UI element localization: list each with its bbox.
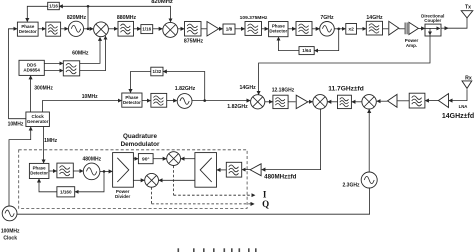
wire PD3 to loop filter F3 xyxy=(142,100,150,102)
svg-text:Coupler: Coupler xyxy=(424,18,441,23)
amplifier A2 xyxy=(389,21,399,35)
wire 880MHz filter to divider 1/16 B xyxy=(134,28,141,30)
svg-text:60MHz: 60MHz xyxy=(72,51,89,57)
wire F3 to VCO 1.82GHz xyxy=(167,100,177,102)
wire 60MHz Q to mixer M1 bottom xyxy=(80,36,106,70)
svg-text:820MHz: 820MHz xyxy=(151,0,173,5)
wire F1 to VCO 820MHz xyxy=(61,28,68,30)
wire LNA to Rx filter xyxy=(425,100,438,102)
svg-text:1.82GHz: 1.82GHz xyxy=(227,104,248,110)
filter 60MHz xyxy=(63,51,89,76)
svg-text:Detector: Detector xyxy=(123,100,141,105)
phase detector PD2 xyxy=(269,22,288,37)
amplifier A1 xyxy=(207,22,219,37)
mixer M5 xyxy=(362,95,376,109)
node 480MHz junction xyxy=(103,170,106,173)
quadrature demodulator dashed box xyxy=(19,150,247,209)
wire junction down to divider 1/160 xyxy=(75,171,104,191)
label 480MHz plus-minus fd xyxy=(264,174,296,181)
amplifier LNA xyxy=(438,94,467,109)
wire splitter to mixer Q xyxy=(159,179,195,181)
wire x2 to filter 14GHz xyxy=(357,28,366,30)
wire 1/8 to filter 109.375MHz xyxy=(235,28,245,30)
wire 1/64 to PD2 bottom xyxy=(279,37,300,50)
wire clock 1MHz down to PD4 xyxy=(44,127,58,163)
wire clock 10MHz to PD1 (left rail) xyxy=(8,119,26,128)
wire 875MHz to amp A1 xyxy=(201,28,207,30)
wire 14GHz filter to amp A2 xyxy=(383,28,389,30)
svg-text:Detector: Detector xyxy=(269,29,287,34)
oscillator 2.3GHz xyxy=(343,172,378,188)
svg-text:880MHz: 880MHz xyxy=(117,15,137,21)
svg-text:2.3GHz: 2.3GHz xyxy=(343,182,360,188)
divider 1/64 xyxy=(299,47,314,55)
svg-text:Demodulator: Demodulator xyxy=(121,141,160,148)
wire clock 300MHz up to DDS xyxy=(31,76,54,112)
svg-text:90°: 90° xyxy=(142,156,149,162)
wire 100MHz clock into clock generator xyxy=(9,127,31,206)
svg-text:300MHz: 300MHz xyxy=(34,86,53,92)
filter 11.7GHz xyxy=(328,85,364,108)
wire 1/32 to PD3 top xyxy=(131,72,152,93)
wire divider to 90 degree shifter xyxy=(133,158,138,160)
wire 820MHz to mixer M1 xyxy=(84,28,94,30)
svg-text:1.82GHz: 1.82GHz xyxy=(175,86,196,92)
divider 1/16 A xyxy=(48,2,60,9)
oscillator 480MHz xyxy=(82,156,101,179)
wire divider to mixer Q xyxy=(133,179,144,181)
svg-text:Clock: Clock xyxy=(3,235,17,241)
wire F2 to VCO 7GHz xyxy=(312,28,319,30)
wire top rail to mixer M2 LO xyxy=(88,6,171,21)
wire coupled port down to Rx mixer M3 xyxy=(259,35,430,95)
phase detector PD3 xyxy=(122,93,142,107)
amplifier A3 xyxy=(296,95,308,108)
wire A1 to divider 1/8 xyxy=(219,28,223,30)
phase shifter 90 xyxy=(138,154,153,164)
wire filter to PD2 xyxy=(262,28,269,30)
svg-text:Clock: Clock xyxy=(31,114,44,119)
svg-text:14GHz: 14GHz xyxy=(240,85,257,91)
svg-text:Tx: Tx xyxy=(465,5,471,11)
filter 480MHz Rx xyxy=(226,162,241,177)
wire amp to 480MHz filter xyxy=(242,169,250,171)
node top rail junction xyxy=(87,5,90,8)
oscillator 820MHz xyxy=(67,15,87,36)
divider 1/160 xyxy=(57,187,75,197)
wire amp A4 to M5 xyxy=(377,100,388,102)
wire M2 to filter 875MHz xyxy=(178,28,184,30)
label Q output xyxy=(262,199,269,209)
wire clock 10MHz to PD3 xyxy=(42,94,121,112)
filter 14GHz xyxy=(366,15,383,35)
svg-text:1/16: 1/16 xyxy=(49,4,58,9)
svg-text:1/64: 1/64 xyxy=(302,48,311,53)
mixer Q xyxy=(145,173,159,187)
label 820MHz (clipped at top) xyxy=(151,0,173,5)
wire Rx antenna to LNA xyxy=(449,89,467,100)
power divider xyxy=(113,153,134,199)
DDS AD9854 xyxy=(19,60,44,75)
wire DDS Q output to 60MHz filter xyxy=(44,70,63,72)
svg-text:109.375MHz: 109.375MHz xyxy=(240,15,268,21)
svg-text:Amp.: Amp. xyxy=(406,43,417,48)
label 14GHz coupled xyxy=(240,85,257,91)
wire DDS I output to 60MHz filter xyxy=(44,62,63,64)
node 7GHz junction xyxy=(337,28,340,31)
wire top rail to divider 1/16 xyxy=(59,5,88,7)
wire M3 to filter 12.18GHz xyxy=(265,101,273,103)
power amplifier xyxy=(405,22,419,48)
wire 60MHz I to mixer M1 bottom xyxy=(80,37,100,63)
oscillator 7GHz xyxy=(320,15,335,36)
svg-text:10MHz: 10MHz xyxy=(82,94,98,100)
wire PD1 to loop filter F1 xyxy=(38,28,45,30)
wire PD2 to loop filter F2 xyxy=(288,28,296,30)
svg-text:100MHz: 100MHz xyxy=(1,228,20,234)
filter 12.18GHz xyxy=(272,87,295,108)
filter 109.375MHz xyxy=(240,15,268,36)
label 14GHz plus-minus fd xyxy=(442,113,474,120)
svg-text:1/160: 1/160 xyxy=(60,189,72,194)
wire F4 to VCO 480MHz xyxy=(73,170,83,172)
label Quadrature Demodulator xyxy=(121,133,160,148)
filter 875MHz xyxy=(184,22,204,45)
amplifier 480MHz (leftward) xyxy=(250,164,261,176)
phase detector PD1 xyxy=(17,22,38,36)
svg-text:x2: x2 xyxy=(348,27,354,33)
svg-text:14GHz±fd: 14GHz±fd xyxy=(442,113,474,120)
node 1.82GHz junction xyxy=(203,99,206,102)
svg-text:14GHz: 14GHz xyxy=(366,15,383,21)
mixer M2 xyxy=(163,22,178,37)
wire M1 to filter 880MHz xyxy=(108,28,117,30)
label I output xyxy=(263,189,267,199)
loop filter F3 xyxy=(151,93,167,107)
svg-text:7GHz: 7GHz xyxy=(320,15,334,21)
wire PA to directional coupler xyxy=(418,27,424,29)
loop filter F1 xyxy=(46,22,61,36)
divider 1/16 B xyxy=(141,25,153,34)
wire 2.3GHz to mixer M5 xyxy=(368,110,370,173)
wire junction up to divider 1/32 xyxy=(163,72,204,101)
wire 480MHz to power divider xyxy=(100,170,112,172)
svg-text:Detector: Detector xyxy=(19,29,37,34)
clock generator xyxy=(26,112,50,127)
loop filter F4 xyxy=(57,163,73,178)
mixer M4 xyxy=(313,95,327,109)
loop filter F2 xyxy=(296,22,312,36)
node 820MHz feedback junction xyxy=(87,28,90,31)
phase detector PD4 xyxy=(29,163,49,178)
wire coupler to Tx antenna xyxy=(441,18,467,28)
wire junction down to divider 1/64 xyxy=(315,29,339,51)
wire M4 down to 480MHz amp xyxy=(262,109,321,170)
filter Rx 14GHz xyxy=(409,93,425,108)
wire PD4 to loop filter F4 xyxy=(49,170,57,172)
filter 880MHz xyxy=(117,15,137,36)
svg-text:Q: Q xyxy=(262,199,269,209)
svg-text:1/16: 1/16 xyxy=(142,27,151,32)
power splitter (RF) xyxy=(195,153,217,188)
svg-text:12.18GHz: 12.18GHz xyxy=(272,87,295,93)
mixer I xyxy=(167,152,181,166)
svg-text:AD9854: AD9854 xyxy=(23,68,40,73)
svg-text:LNA: LNA xyxy=(459,104,468,109)
wire 12.18GHz filter to amp A3 xyxy=(288,101,296,103)
directional coupler xyxy=(421,13,444,36)
oscillator 1.82GHz xyxy=(175,86,196,108)
wire 2.3GHz reference to 100MHz clock xyxy=(17,188,370,214)
mixer M3 xyxy=(251,95,265,109)
svg-text:DDS: DDS xyxy=(27,62,37,67)
svg-text:Divider: Divider xyxy=(115,194,131,199)
svg-text:1/8: 1/8 xyxy=(226,27,233,32)
wire 1.82GHz to mixer M3 xyxy=(192,101,250,110)
wire mixer M5 to 11.7GHz filter xyxy=(352,101,362,103)
divider 1/8 xyxy=(223,24,235,34)
wire A3 to mixer M4 xyxy=(308,101,313,103)
wire 1/160 to PD4 bottom xyxy=(39,179,57,192)
svg-text:Quadrature: Quadrature xyxy=(123,133,157,140)
wire 1/16 to PD1 top xyxy=(27,6,48,21)
wire A2 to power amp xyxy=(399,28,405,30)
svg-text:Generator: Generator xyxy=(27,119,49,124)
oscillator 100MHz clock xyxy=(1,206,20,241)
wire 7GHz to x2 xyxy=(334,28,345,30)
caption remnant (clipped text) xyxy=(178,248,257,252)
svg-text:Detector: Detector xyxy=(30,171,48,176)
wire mixer I output dashed I xyxy=(174,166,255,196)
svg-text:1MHz: 1MHz xyxy=(44,138,58,144)
svg-text:480MHz: 480MHz xyxy=(82,156,101,162)
wire mixer Q output dashed Q xyxy=(152,187,254,204)
svg-text:480MHz±fd: 480MHz±fd xyxy=(264,174,296,181)
antenna Rx xyxy=(462,76,472,89)
wire reference 10MHz into PD1 xyxy=(8,29,17,119)
amplifier A4 (leftward) xyxy=(388,94,398,107)
svg-text:875MHz: 875MHz xyxy=(184,38,204,44)
wire splitter to mixer I xyxy=(181,158,195,160)
wire 480MHz filter to splitter xyxy=(217,169,226,171)
svg-text:11.7GHz±fd: 11.7GHz±fd xyxy=(328,85,364,92)
wire 11.7GHz filter to M4 xyxy=(328,101,338,103)
antenna Tx xyxy=(461,5,473,18)
multiplier x2 xyxy=(346,24,357,35)
divider 1/32 xyxy=(151,67,163,76)
wire junction up to top rail xyxy=(87,6,89,29)
wire 90 to mixer I xyxy=(153,158,166,160)
svg-text:Rx: Rx xyxy=(465,76,472,82)
wire 1/16 B to mixer M2 xyxy=(153,28,163,30)
svg-text:10MHz: 10MHz xyxy=(8,122,24,128)
svg-text:1/32: 1/32 xyxy=(153,69,162,74)
svg-text:820MHz: 820MHz xyxy=(67,15,87,21)
mixer M1 xyxy=(94,22,109,37)
wire Rx filter to A4 xyxy=(398,100,410,102)
